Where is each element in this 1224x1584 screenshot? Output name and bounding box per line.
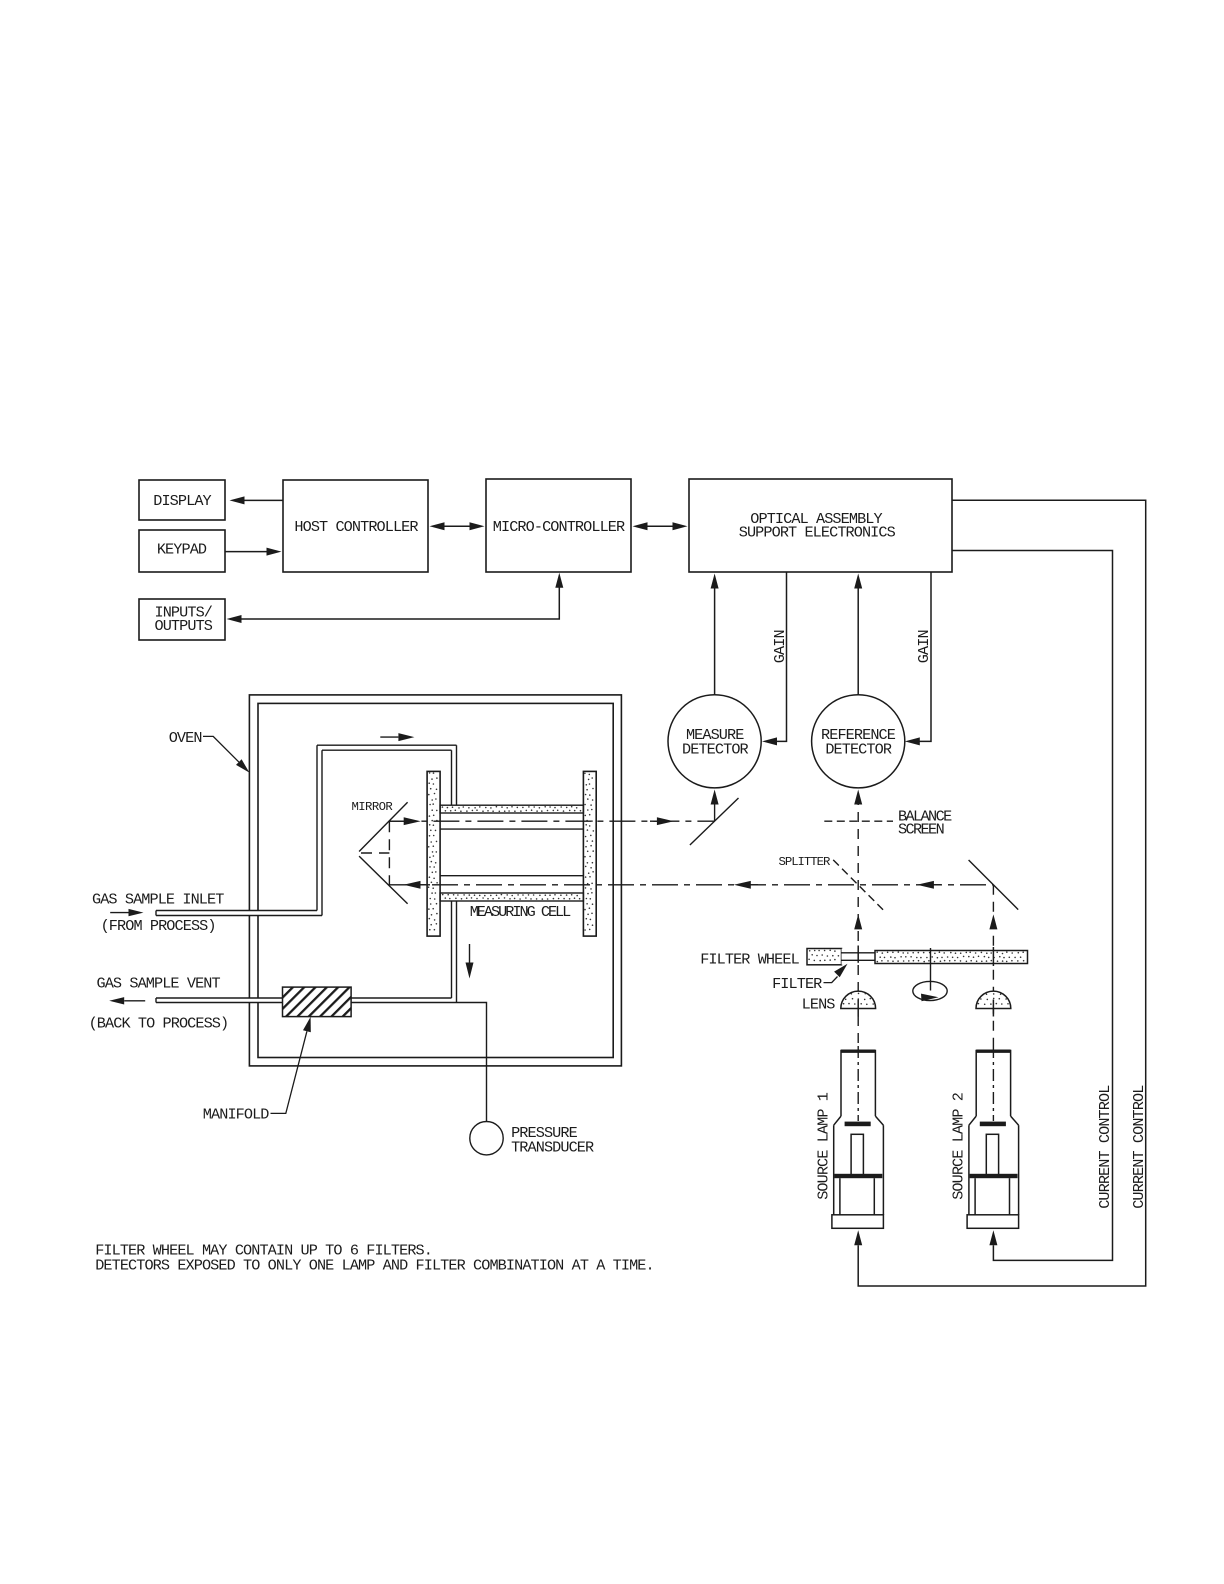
svg-text:DETECTORS EXPOSED TO ONLY ONE: DETECTORS EXPOSED TO ONLY ONE LAMP AND F… xyxy=(95,1257,654,1275)
measuring cell right plate xyxy=(583,771,596,936)
oven inner wall xyxy=(258,703,613,1057)
filter wheel left segment xyxy=(807,949,842,965)
svg-text:DETECTOR: DETECTOR xyxy=(682,741,748,759)
svg-text:(BACK TO PROCESS): (BACK TO PROCESS) xyxy=(89,1015,229,1033)
balance screen (dashed) xyxy=(824,820,893,822)
box MICRO-CONTROLLER xyxy=(486,479,631,572)
rotation ellipse xyxy=(913,981,947,1000)
manifold (hatched) xyxy=(283,987,352,1017)
wire measure detector to optical box xyxy=(714,588,716,695)
wheel axle xyxy=(930,948,932,991)
flow arrow below cell xyxy=(469,944,471,963)
filter wheel long segment xyxy=(875,951,1028,964)
bottom beam axis xyxy=(388,884,993,886)
flow arrow above top duct xyxy=(380,736,398,738)
svg-text:OVEN: OVEN xyxy=(169,729,202,747)
svg-text:KEYPAD: KEYPAD xyxy=(157,541,207,559)
reference detector vertical axis xyxy=(857,795,859,1046)
svg-text:TRANSDUCER: TRANSDUCER xyxy=(511,1139,594,1157)
svg-text:DETECTOR: DETECTOR xyxy=(825,741,891,759)
box KEYPAD xyxy=(139,530,225,572)
wire host to display xyxy=(245,499,284,501)
wire keypad to host xyxy=(225,551,267,553)
box OPTICAL ASSEMBLY SUPPORT ELECTRONICS xyxy=(689,479,952,572)
svg-text:MICRO-CONTROLLER: MICRO-CONTROLLER xyxy=(493,518,625,536)
svg-text:SPLITTER: SPLITTER xyxy=(779,855,831,869)
splitter (dashed diagonal) xyxy=(833,860,883,910)
top beam axis xyxy=(389,820,714,822)
svg-text:GAS SAMPLE VENT: GAS SAMPLE VENT xyxy=(97,974,221,992)
svg-text:GAIN: GAIN xyxy=(915,630,933,663)
svg-text:CURRENT CONTROL: CURRENT CONTROL xyxy=(1096,1085,1114,1209)
oven outer wall xyxy=(249,695,621,1066)
svg-text:FILTER: FILTER xyxy=(772,975,822,993)
mirror (in oven) lower face xyxy=(359,856,408,904)
svg-text:SOURCE LAMP 1: SOURCE LAMP 1 xyxy=(815,1092,833,1200)
tube: bottom duct xyxy=(351,998,456,1003)
lens 1 xyxy=(841,991,876,1008)
svg-text:SUPPORT ELECTRONICS: SUPPORT ELECTRONICS xyxy=(739,523,896,541)
lamp 2 vertical axis xyxy=(992,885,994,1046)
svg-text:GAS SAMPLE INLET: GAS SAMPLE INLET xyxy=(92,890,224,908)
wire to pressure transducer xyxy=(457,1003,487,1122)
svg-text:GAIN: GAIN xyxy=(771,630,789,663)
measuring cell bottom wall xyxy=(440,893,583,901)
tube: left duct xyxy=(317,745,322,915)
svg-text:DISPLAY: DISPLAY xyxy=(153,492,211,510)
svg-text:LENS: LENS xyxy=(802,995,836,1013)
svg-text:MEASURING CELL: MEASURING CELL xyxy=(470,903,571,921)
svg-text:MANIFOLD: MANIFOLD xyxy=(203,1106,269,1124)
tube: gas sample inlet xyxy=(156,911,322,916)
mirror (in oven) upper face xyxy=(359,802,408,851)
source lamp 1 xyxy=(832,1051,884,1229)
tube: duct into cell top xyxy=(452,745,457,805)
measuring cell left plate xyxy=(427,771,440,936)
mirror horizontal axis stub xyxy=(361,852,389,854)
wire inputs/outputs to micro xyxy=(242,588,560,620)
wire micro to optical bidirectional xyxy=(647,525,673,527)
reference detector circle xyxy=(812,695,905,788)
measure detector circle xyxy=(668,695,761,788)
45 deg mirror to measure detector xyxy=(690,798,739,845)
axis crossings over filter and lenses xyxy=(857,946,859,963)
wire host to micro bidirectional xyxy=(444,525,470,527)
svg-text:(FROM PROCESS): (FROM PROCESS) xyxy=(101,917,216,935)
svg-text:SCREEN: SCREEN xyxy=(898,820,944,838)
source lamp 2 xyxy=(967,1051,1019,1229)
svg-text:MIRROR: MIRROR xyxy=(352,800,394,814)
svg-text:CURRENT CONTROL: CURRENT CONTROL xyxy=(1130,1085,1148,1209)
current control wire lamp 2 (inner loop) xyxy=(952,551,1113,1261)
box INPUTS/OUTPUTS xyxy=(139,599,225,640)
box DISPLAY xyxy=(139,480,225,520)
gain wire 1 xyxy=(777,572,787,741)
beam up to measure detector xyxy=(714,805,716,822)
tube white underlays xyxy=(156,911,322,916)
wire reference detector to optical box xyxy=(857,588,859,695)
tube: duct from cell bottom xyxy=(452,901,457,1003)
mirror for lamp 2 xyxy=(969,860,1019,910)
pressure transducer circle xyxy=(470,1122,503,1155)
gain wire 2 xyxy=(919,572,931,741)
mirror vertical axis xyxy=(388,821,390,885)
filter (gap in wheel) xyxy=(842,949,876,965)
svg-text:SOURCE LAMP 2: SOURCE LAMP 2 xyxy=(950,1092,968,1200)
current control wire lamp 1 (outer loop) xyxy=(858,500,1145,1286)
tube: top duct xyxy=(317,745,457,750)
measuring cell bore walls xyxy=(440,829,583,876)
box HOST CONTROLLER xyxy=(283,480,428,572)
svg-text:OUTPUTS: OUTPUTS xyxy=(155,617,213,635)
tube: gas sample vent xyxy=(156,998,283,1003)
measuring cell top wall xyxy=(440,805,583,813)
svg-text:HOST CONTROLLER: HOST CONTROLLER xyxy=(294,518,418,536)
svg-text:FILTER WHEEL: FILTER WHEEL xyxy=(700,950,799,968)
lens 2 xyxy=(976,991,1011,1008)
